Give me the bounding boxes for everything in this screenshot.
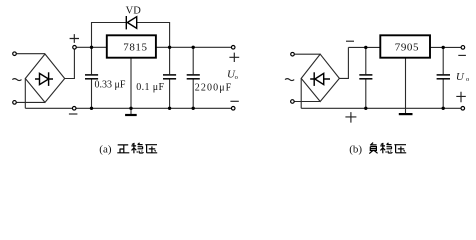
svg-text:VD: VD [126,6,142,17]
svg-text:o: o [466,76,469,83]
svg-text:(a): (a) [99,144,112,156]
svg-text:7905: 7905 [395,41,419,53]
svg-text:U: U [456,71,465,83]
svg-text:(b): (b) [349,144,362,156]
svg-text:0.1 μF: 0.1 μF [136,82,164,93]
svg-text:0.33 μF: 0.33 μF [95,79,126,90]
svg-text:7815: 7815 [123,41,147,53]
svg-text:2200μF: 2200μF [195,83,233,94]
svg-text:o: o [235,74,238,81]
